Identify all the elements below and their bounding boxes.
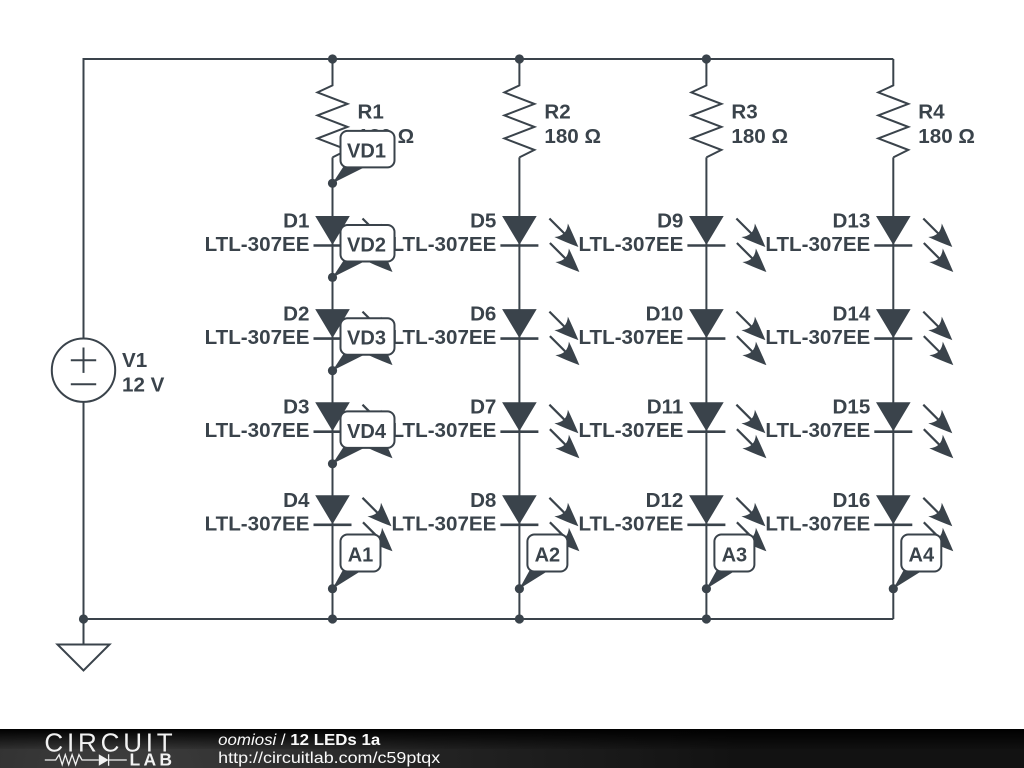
svg-text:D10: D10: [646, 303, 684, 326]
svg-text:LTL-307EE: LTL-307EE: [205, 326, 310, 349]
junction bottom bus node col 3: [702, 614, 711, 623]
LED D7: [500, 402, 579, 458]
resistor R4: [878, 59, 908, 157]
ammeter probe A4: [889, 535, 942, 594]
svg-text:D5: D5: [470, 210, 496, 233]
svg-text:D9: D9: [657, 210, 683, 233]
voltage source V1: [52, 339, 115, 402]
svg-text:VD4: VD4: [347, 421, 387, 443]
svg-text:V1: V1: [122, 349, 147, 372]
svg-text:A3: A3: [722, 545, 748, 567]
svg-text:LTL-307EE: LTL-307EE: [578, 512, 683, 535]
resistor R1: [318, 59, 348, 157]
wire column 2 (resistor R2 to bottom bus): [518, 157, 520, 619]
svg-text:LTL-307EE: LTL-307EE: [765, 233, 870, 256]
svg-text:180 Ω: 180 Ω: [731, 125, 788, 148]
LED D11: [687, 402, 766, 458]
svg-text:180 Ω: 180 Ω: [544, 125, 601, 148]
svg-text:LTL-307EE: LTL-307EE: [391, 326, 496, 349]
svg-text:VD2: VD2: [347, 234, 386, 256]
LED D5: [500, 216, 579, 272]
svg-text:R1: R1: [358, 101, 384, 124]
svg-text:D6: D6: [470, 303, 496, 326]
svg-text:A4: A4: [909, 545, 935, 567]
wire top bus: [84, 59, 894, 340]
svg-text:http://circuitlab.com/c59ptqx: http://circuitlab.com/c59ptqx: [218, 750, 440, 767]
LED D13: [874, 216, 953, 272]
svg-text:LTL-307EE: LTL-307EE: [205, 419, 310, 442]
svg-text:R3: R3: [731, 101, 757, 124]
LED D10: [687, 309, 766, 365]
svg-text:D13: D13: [833, 210, 871, 233]
wire column 1 (resistor R1 to bottom bus): [332, 157, 334, 619]
LED D6: [500, 309, 579, 365]
LED D14: [874, 309, 953, 365]
voltmeter probe VD2: [328, 225, 395, 282]
junction ground node: [79, 614, 88, 623]
svg-text:VD1: VD1: [347, 140, 386, 162]
resistor R3: [691, 59, 721, 157]
LED D9: [687, 216, 766, 272]
svg-text:LAB: LAB: [130, 749, 173, 768]
svg-text:LTL-307EE: LTL-307EE: [765, 326, 870, 349]
svg-text:R4: R4: [918, 101, 945, 124]
junction bottom bus node col 1: [328, 614, 337, 623]
logo schematic doodle (resistor + diode): [45, 754, 127, 766]
svg-text:D12: D12: [646, 489, 684, 512]
resistor R2: [504, 59, 534, 157]
svg-text:A2: A2: [535, 545, 561, 567]
LED D1: [314, 216, 393, 272]
svg-text:VD3: VD3: [347, 328, 386, 350]
svg-text:D3: D3: [283, 396, 309, 419]
voltmeter probe VD3: [328, 318, 395, 375]
ammeter probe A3: [702, 535, 755, 594]
ground: [58, 619, 110, 671]
svg-text:LTL-307EE: LTL-307EE: [391, 512, 496, 535]
svg-text:LTL-307EE: LTL-307EE: [765, 419, 870, 442]
wire column 4 (resistor R4 to bottom bus): [892, 157, 894, 619]
svg-text:D8: D8: [470, 489, 496, 512]
wire column 3 (resistor R3 to bottom bus): [705, 157, 707, 619]
svg-text:LTL-307EE: LTL-307EE: [578, 326, 683, 349]
svg-text:D7: D7: [470, 396, 496, 419]
svg-text:D15: D15: [833, 396, 871, 419]
LED D2: [314, 309, 393, 365]
svg-text:LTL-307EE: LTL-307EE: [578, 419, 683, 442]
junction top bus node col 2: [515, 54, 524, 63]
voltmeter probe VD1: [328, 131, 395, 188]
svg-text:D1: D1: [283, 210, 309, 233]
LED D3: [314, 402, 393, 458]
svg-text:D11: D11: [647, 396, 684, 419]
svg-text:R2: R2: [544, 101, 570, 124]
junction top bus node col 3: [702, 54, 711, 63]
svg-text:oomiosi / 12 LEDs 1a: oomiosi / 12 LEDs 1a: [218, 732, 380, 749]
svg-text:LTL-307EE: LTL-307EE: [578, 233, 683, 256]
junction bottom bus node col 2: [515, 614, 524, 623]
svg-text:LTL-307EE: LTL-307EE: [205, 233, 310, 256]
svg-text:D2: D2: [283, 303, 309, 326]
LED D4: [314, 495, 393, 551]
svg-text:LTL-307EE: LTL-307EE: [765, 512, 870, 535]
svg-text:D4: D4: [283, 489, 310, 512]
svg-text:12 V: 12 V: [122, 373, 165, 396]
ammeter probe A2: [515, 535, 568, 594]
footer bar: [0, 729, 1024, 768]
svg-text:D16: D16: [833, 489, 871, 512]
wire bottom bus: [84, 401, 894, 619]
svg-text:LTL-307EE: LTL-307EE: [391, 419, 496, 442]
svg-text:LTL-307EE: LTL-307EE: [391, 233, 496, 256]
junction top bus node col 1: [328, 54, 337, 63]
svg-text:180 Ω: 180 Ω: [918, 125, 975, 148]
svg-text:D14: D14: [833, 303, 871, 326]
svg-text:LTL-307EE: LTL-307EE: [205, 512, 310, 535]
svg-text:A1: A1: [348, 545, 374, 567]
LED D12: [687, 495, 766, 551]
LED D15: [874, 402, 953, 458]
LED D16: [874, 495, 953, 551]
voltmeter probe VD4: [328, 411, 395, 468]
LED D8: [500, 495, 579, 551]
ammeter probe A1: [328, 535, 381, 594]
